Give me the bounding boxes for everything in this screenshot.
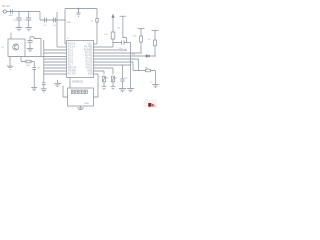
resistor R6: [146, 69, 151, 72]
wire pin left 2: [57, 46, 67, 48]
svg-text:VCC: VCC: [87, 44, 92, 46]
ground: [119, 89, 126, 92]
wire pin left 1: [65, 43, 67, 45]
svg-text:XTAL1: XTAL1: [85, 67, 93, 70]
ground: [111, 87, 116, 90]
svg-text:P1.1-A: P1.1-A: [68, 46, 75, 49]
svg-text:P3.7RD: P3.7RD: [84, 47, 92, 49]
svg-text:C4: C4: [53, 25, 57, 27]
wire XTAL2: [56, 12, 58, 47]
wire pin right 4: [94, 52, 142, 54]
display module glyphs: [71, 90, 87, 94]
ground: [25, 28, 32, 31]
svg-text:VSS: VSS: [88, 74, 93, 76]
wire: [43, 40, 45, 83]
svg-text:GND: GND: [84, 103, 89, 105]
svg-text:10k: 10k: [26, 65, 30, 67]
ground: [102, 87, 107, 90]
ground: [16, 28, 23, 31]
wire pin right 5: [94, 55, 146, 57]
capacitor C6: [27, 37, 32, 48]
wire: [40, 12, 65, 21]
resistor R5: [154, 40, 157, 46]
diode D1: [11, 9, 13, 13]
svg-text:10u: 10u: [37, 68, 40, 70]
ground left: [7, 57, 13, 70]
capacitor C1: [16, 12, 21, 28]
svg-text:4.7k: 4.7k: [133, 35, 138, 37]
power bar VCC C: [120, 16, 127, 42]
svg-text:S2: S2: [106, 78, 109, 80]
svg-text:GND: GND: [87, 71, 92, 73]
wire top rail: [65, 8, 97, 10]
node junction: [78, 8, 79, 9]
wire pin left 5: [10, 56, 67, 58]
svg-text:P1.4: P1.4: [68, 56, 73, 58]
capacitor C3: [44, 18, 46, 23]
wire pin right 8: [94, 64, 131, 66]
wire pin right 1: [94, 43, 98, 45]
resistor R4: [140, 36, 143, 42]
svg-text:P3.4T0: P3.4T0: [85, 56, 93, 58]
capacitor C7 to ground: [32, 62, 36, 88]
wire pin left 7: [44, 61, 67, 63]
switch S2: [103, 76, 106, 82]
power VCC arrow: [112, 17, 114, 47]
power bar VCC A: [138, 28, 145, 53]
svg-text:S1: S1: [115, 78, 118, 80]
capacitor C4: [54, 18, 56, 23]
power bar VCC B: [152, 30, 159, 56]
transistor Q1 box: [8, 39, 25, 57]
wire pin right 9: [94, 68, 114, 75]
svg-text:C3: C3: [44, 25, 48, 27]
wire pin left 4: [44, 52, 67, 54]
capacitor C10 to ground: [42, 83, 46, 89]
wire: [7, 11, 40, 13]
wire: [96, 9, 98, 45]
ground center: [54, 80, 61, 87]
node junction: [64, 19, 65, 20]
svg-text:Q1: Q1: [1, 47, 5, 49]
ground: [27, 48, 33, 51]
wire lower right rail: [133, 70, 155, 72]
wire pin right 3: [94, 49, 127, 51]
wire XTAL1: [64, 9, 66, 45]
svg-text:P3.3I1: P3.3I1: [86, 59, 93, 61]
svg-text:P1.5: P1.5: [68, 59, 73, 61]
resistor R3: [111, 32, 115, 39]
svg-text:12M: 12M: [67, 22, 71, 24]
svg-text:DC 9V: DC 9V: [2, 4, 10, 8]
wire pin right 10: [94, 71, 105, 75]
svg-text:C7: C7: [150, 82, 153, 84]
wire pin left 3: [44, 49, 67, 51]
svg-text:RST/VP: RST/VP: [68, 68, 77, 70]
svg-text:P3.6WR: P3.6WR: [84, 50, 93, 52]
pin labels left: [68, 43, 77, 76]
svg-text:AT89C51: AT89C51: [72, 80, 84, 84]
svg-text:XTAL2: XTAL2: [85, 64, 93, 67]
diode D2: [146, 55, 149, 58]
svg-text:1k: 1k: [91, 21, 94, 23]
svg-text:P1.3: P1.3: [68, 53, 73, 55]
capacitor C5 to ground: [76, 9, 80, 17]
svg-text:Y1: Y1: [67, 38, 70, 40]
ground module bottom: [77, 106, 84, 110]
wire IC to module: [69, 78, 71, 89]
watermark: [144, 100, 158, 109]
svg-text:1k: 1k: [148, 39, 151, 41]
capacitor C8 electrolytic: [112, 42, 113, 43]
wire module left: [63, 86, 68, 98]
svg-text:10k: 10k: [104, 34, 108, 36]
display module box: [68, 88, 94, 106]
svg-text:P3.2I0: P3.2I0: [86, 62, 93, 64]
svg-text:P1.6: P1.6: [68, 62, 73, 64]
svg-text:R2: R2: [118, 28, 121, 30]
svg-text:C9: C9: [124, 77, 128, 79]
svg-text:P3.5T1: P3.5T1: [85, 53, 93, 55]
svg-text:P3.1TX: P3.1TX: [68, 74, 76, 76]
wire pin right 2 RST: [94, 46, 114, 48]
wire row 2: [21, 57, 34, 62]
wire box top: [10, 33, 12, 40]
wire pin left 11: [44, 73, 67, 75]
wire pin right 6: [94, 59, 139, 71]
svg-text:4007: 4007: [9, 15, 15, 17]
resistor R2: [26, 60, 31, 63]
wire pin left 9: [44, 67, 67, 69]
wire pin left 6: [44, 58, 67, 60]
switch S1: [112, 76, 115, 82]
op-amp U1 IC box: [67, 41, 94, 78]
ground: [152, 71, 159, 88]
wire pin right 7: [94, 62, 134, 71]
wire: [30, 37, 41, 57]
svg-text:C: C: [99, 77, 101, 79]
pin labels right: [84, 44, 93, 76]
svg-text:P1.2: P1.2: [68, 50, 73, 52]
resistor R1: [96, 19, 98, 23]
wire pin left 10: [44, 70, 67, 72]
svg-text:P3.0RX: P3.0RX: [68, 71, 76, 73]
ground: [31, 88, 37, 91]
ground: [127, 89, 134, 92]
capacitor C9 to ground: [120, 65, 124, 88]
wire: [130, 43, 132, 89]
svg-text:P1.7: P1.7: [68, 65, 73, 67]
capacitor C2: [26, 12, 31, 28]
wire pin left 8: [44, 64, 67, 66]
svg-text:P1.0-A: P1.0-A: [68, 43, 75, 46]
wire pin right 11: [94, 74, 99, 97]
ground: [41, 89, 47, 92]
connector J1: [3, 10, 6, 13]
